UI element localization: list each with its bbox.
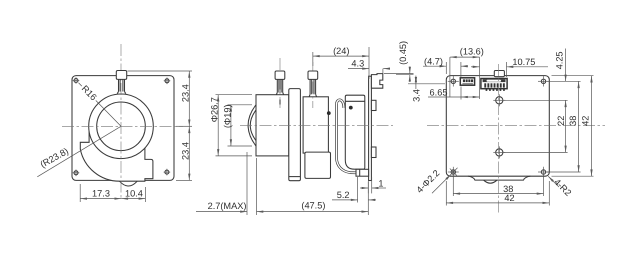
- svg-text:2.7(MAX): 2.7(MAX): [208, 201, 247, 211]
- dim 6.65 extension: [460, 87, 462, 100]
- lens housing trough visible below plate: [468, 176, 531, 180]
- hole top-left: [448, 76, 459, 86]
- svg-text:6.65: 6.65: [430, 88, 448, 98]
- R23.8 leader: [37, 126, 121, 177]
- svg-text:(47.5): (47.5): [301, 200, 325, 210]
- label 42 right: [580, 116, 590, 126]
- svg-text:10.75: 10.75: [512, 57, 535, 67]
- cable plug: [356, 169, 369, 176]
- fiducial lower: [493, 146, 505, 158]
- flange: [289, 89, 301, 181]
- svg-text:42: 42: [504, 193, 514, 203]
- focus knob cap: [116, 71, 126, 80]
- center vertical line: [120, 44, 122, 199]
- knob2 cap: [308, 71, 318, 79]
- small connector: [460, 78, 474, 85]
- lower gear box: [305, 152, 331, 178]
- dim 3.4 line: [415, 76, 417, 84]
- dim (24) extensions: [312, 52, 314, 66]
- knob1 center line: [279, 58, 281, 108]
- screw dot on rear body: [327, 111, 331, 115]
- dim 3.4 extension: [408, 83, 445, 85]
- big connector pin stubs below: [486, 89, 505, 91]
- svg-text:(13.6): (13.6): [460, 46, 484, 56]
- knob1 stem hidden tick: [279, 100, 281, 105]
- dim line 42 bottom: [446, 202, 549, 204]
- housing bottom bump: [120, 181, 138, 186]
- lens housing body: [80, 121, 153, 181]
- screw hole top-left: [73, 77, 80, 84]
- svg-text:4.25: 4.25: [555, 51, 565, 69]
- dim line 38 bottom: [453, 193, 543, 195]
- svg-text:4-R2: 4-R2: [552, 177, 573, 198]
- lens inner circle: [97, 102, 146, 151]
- dim (47.5) extensions: [256, 158, 258, 215]
- rear group top line: [345, 100, 365, 102]
- big connector tab: [494, 71, 504, 77]
- dim line (13.6): [450, 56, 480, 58]
- dim 4.3 extension: [382, 69, 384, 74]
- rear lens group housing: [345, 95, 365, 169]
- knob stem: [117, 79, 126, 93]
- label 4-R2: [552, 177, 573, 198]
- dim (4.7) extensions: [445, 62, 447, 74]
- cable plug collar line: [359, 169, 361, 176]
- dim (0.45) arrows: [409, 67, 411, 74]
- label 4-phi2.2: [414, 168, 441, 195]
- svg-text:(4.7): (4.7): [424, 57, 443, 67]
- dim line 38 right: [578, 81, 580, 172]
- knob2 center line: [312, 62, 314, 108]
- svg-text:3.4: 3.4: [412, 89, 422, 102]
- screw hole top-right: [164, 78, 171, 85]
- dim 23.4: extension at center right: [176, 125, 192, 127]
- dim phi26.7 extensions: [216, 94, 253, 96]
- svg-text:10.4: 10.4: [125, 188, 143, 198]
- svg-text:1: 1: [378, 179, 383, 189]
- big connector inner teeth: [484, 83, 505, 87]
- dim (13.6) extensions: [449, 57, 451, 97]
- screw dot on rear group: [349, 106, 353, 110]
- dim line 10.4: [121, 198, 145, 200]
- knob1 stem: [276, 79, 283, 94]
- dim line (24): [313, 55, 369, 57]
- dim 6.65 line: [428, 96, 461, 98]
- svg-text:5.2: 5.2: [337, 190, 350, 200]
- leader 4-R2: [548, 176, 559, 187]
- label 38 right: [568, 116, 578, 126]
- label 4.25: [555, 51, 565, 69]
- dim phi19 extensions: [228, 104, 253, 106]
- screw hole bottom-left: [73, 170, 80, 177]
- connector clip upper: [371, 100, 376, 110]
- dim line 42 right: [591, 76, 593, 177]
- R23.8 label: [38, 146, 70, 170]
- mounting plate edge-on: [369, 76, 372, 180]
- dim line 17.3: [80, 198, 121, 200]
- optical axis center line: [240, 124, 393, 126]
- front lens element inner arc: [250, 110, 256, 141]
- back plate: [446, 76, 549, 177]
- label 22: [556, 116, 566, 126]
- svg-text:23.4: 23.4: [181, 84, 191, 102]
- dim 10.75 extension: [506, 62, 508, 77]
- svg-text:4.3: 4.3: [351, 59, 364, 69]
- bottom extensions: [452, 176, 454, 197]
- dim line 23.4 top: [188, 71, 190, 126]
- dim line phi19: [230, 105, 232, 146]
- svg-text:4-Φ2.2: 4-Φ2.2: [414, 168, 441, 195]
- center tick on hole bottom-left: [450, 169, 457, 176]
- cable (double line): [337, 100, 357, 173]
- rear body: [303, 97, 328, 153]
- svg-text:(24): (24): [333, 46, 349, 56]
- dim line phi26.7: [217, 95, 219, 156]
- lens outer circle: [89, 94, 154, 159]
- svg-text:23.4: 23.4: [181, 142, 191, 160]
- label 3.4: [412, 89, 422, 102]
- dim 4.3 arrows: [348, 68, 369, 70]
- svg-text:22: 22: [556, 116, 566, 126]
- right side extensions: [552, 75, 594, 77]
- hole bottom-left: [448, 167, 459, 177]
- dim line 22: [565, 100, 567, 152]
- label phi19: [222, 104, 232, 128]
- svg-text:17.3: 17.3: [92, 188, 110, 198]
- svg-text:Φ26.7: Φ26.7: [210, 97, 220, 122]
- dim 4.25 line: [565, 49, 567, 82]
- knob2 stem: [309, 79, 317, 96]
- screw hole bottom-right: [164, 169, 171, 176]
- hole bottom-right: [538, 167, 549, 177]
- center horizontal line: [427, 125, 605, 127]
- label 23.4 top: [181, 84, 191, 102]
- svg-text:(0.45): (0.45): [398, 41, 408, 65]
- svg-text:(R23.8): (R23.8): [38, 146, 70, 170]
- knob1 cap: [275, 71, 285, 79]
- label (0.45): [398, 41, 408, 65]
- svg-text:(Φ19): (Φ19): [222, 104, 232, 128]
- dim (4.7) arrows: [423, 65, 446, 67]
- svg-text:38: 38: [568, 116, 578, 126]
- dim 1 arrows: [360, 187, 368, 189]
- lens barrel bump below plate: [484, 180, 497, 183]
- dim 23.4 top: extension from knob cap top: [128, 70, 193, 72]
- extension from lens tip: [246, 152, 248, 215]
- dim line (47.5): [257, 211, 369, 213]
- big connector side profile with notch: [371, 74, 382, 89]
- big connector: [481, 79, 507, 89]
- dim 5.2 extension: [357, 177, 359, 203]
- dim (0.45) extension lines: [384, 73, 414, 75]
- main cylinder: [256, 95, 289, 156]
- label phi26.7: [210, 97, 220, 122]
- connector clip lower: [371, 147, 376, 158]
- label 23.4 bottom: [181, 142, 191, 160]
- dim 1 extension: [367, 181, 369, 193]
- svg-text:42: 42: [580, 116, 590, 126]
- dim 5.2 arrows: [332, 199, 358, 201]
- dim 23.4: extension at plate bottom right: [176, 179, 192, 181]
- mounting plate: [72, 76, 174, 181]
- dim 2.7(MAX) line: [196, 211, 247, 213]
- dim 17.3/10.4 extensions: [79, 184, 81, 202]
- fiducial upper: [493, 94, 505, 106]
- center vertical line: [498, 64, 500, 215]
- front lens element outer arc: [248, 105, 256, 146]
- dim 10.75 line: [471, 66, 480, 68]
- center horizontal line: [62, 125, 183, 127]
- flange foot line: [289, 176, 301, 178]
- R16 label: [79, 82, 100, 103]
- hole top-right: [538, 76, 549, 86]
- R16 leader: [79, 83, 122, 127]
- leader 4-phi2.2: [432, 174, 451, 193]
- dim line 23.4 bottom: [188, 126, 190, 180]
